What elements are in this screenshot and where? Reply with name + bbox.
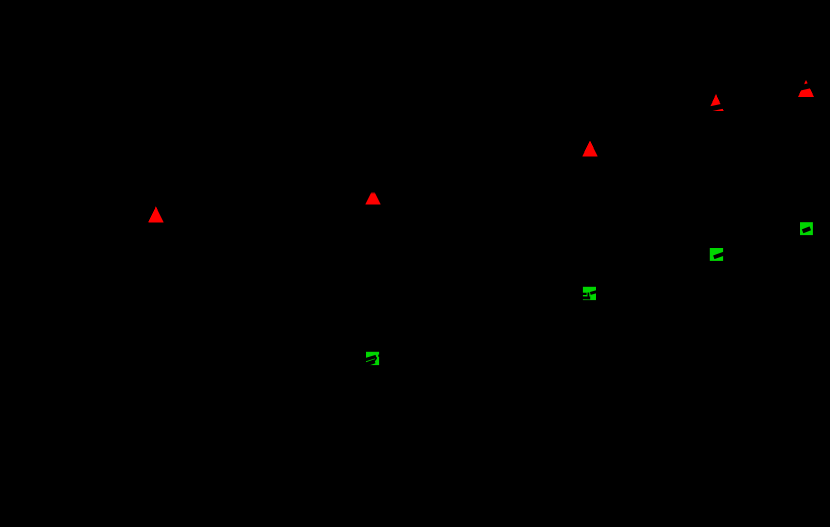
- wire W2a into PAD2: [576, 293, 587, 295]
- wire W2b into PAD2: [576, 296, 590, 299]
- power +V symbol P2: [365, 189, 381, 205]
- pad/pin PAD3 (connected, green): [710, 248, 723, 261]
- wire from P3 down: [588, 159, 591, 191]
- wire W3 out of PAD3: [714, 252, 728, 257]
- wire W1a into PAD1: [352, 356, 376, 363]
- wire nick on PAD1 right edge: [378, 354, 380, 357]
- wire from P2 down: [372, 207, 375, 241]
- pad/pin PAD4 (connected, green): [800, 222, 813, 235]
- wire W2c kink in PAD2: [587, 293, 589, 297]
- wire from P1 down to rail: [156, 225, 200, 261]
- pad/pin PAD2 (connected, green): [583, 287, 596, 300]
- power +V symbol P4: [708, 94, 724, 111]
- wire W5 crossing P5: [798, 81, 818, 91]
- wire stub in PAD4: [803, 228, 811, 231]
- wire bus segment over P2 apex: [352, 183, 395, 192]
- wire W4 crossing P4: [706, 103, 727, 113]
- power +V symbol P3: [582, 140, 598, 156]
- wire W2d out of PAD2: [590, 290, 601, 293]
- wire junction fill at PAD1 anchor: [373, 357, 377, 362]
- power +V symbol P1: [148, 206, 164, 222]
- wire W1b into PAD1: [352, 361, 375, 369]
- pad/pin PAD1 (connected, green): [366, 352, 379, 365]
- power +V symbol P5: [798, 80, 814, 97]
